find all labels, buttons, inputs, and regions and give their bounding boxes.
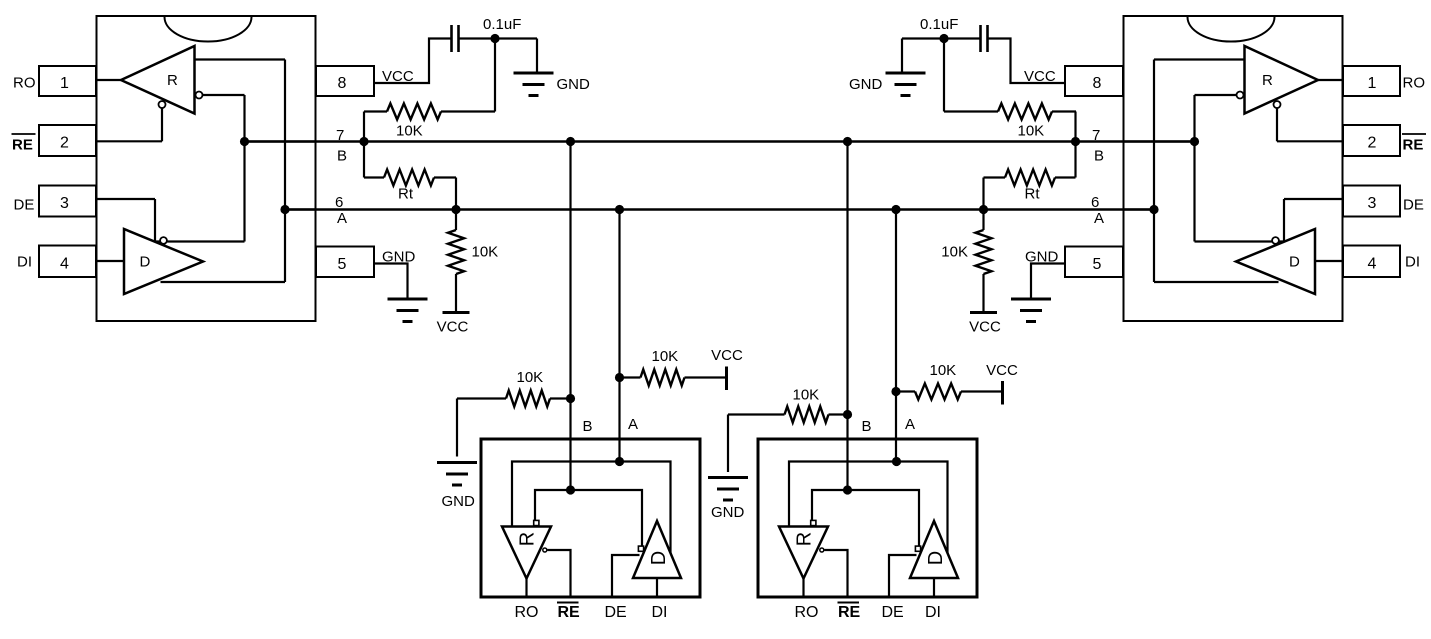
svg-text:0.1uF: 0.1uF [483, 16, 521, 33]
junction U4 A [892, 457, 901, 466]
wire U4 DI [933, 578, 935, 597]
driver D of U3 (pointing up) [633, 521, 681, 578]
U1 pin 2 box [39, 125, 96, 156]
ground symbol at C2 [886, 72, 926, 75]
svg-text:10K: 10K [1018, 123, 1045, 140]
svg-text:VCC: VCC [969, 319, 1001, 336]
U1 pin 8 box [316, 66, 374, 96]
wire C1 to GND [459, 37, 538, 39]
svg-text:D: D [925, 551, 947, 565]
svg-text:RE: RE [1403, 137, 1424, 154]
wire pin8 VCC to capacitor C1 [374, 39, 452, 84]
wire Rt1 to A bus [455, 178, 457, 210]
svg-text:5: 5 [338, 256, 347, 273]
wire B bus (y=141.5) [245, 140, 1195, 143]
svg-text:DI: DI [925, 604, 941, 621]
wire R3 to B bus [1074, 112, 1076, 142]
driver D of U2 [1236, 229, 1315, 294]
svg-text:GND: GND [711, 504, 745, 521]
svg-text:B: B [337, 148, 347, 165]
node VCC-C1 junction [490, 34, 499, 43]
resistor R7 10K (U4 B to GND) [728, 413, 785, 415]
wire RO pin1 to R output [96, 79, 121, 81]
svg-text:1: 1 [1368, 75, 1377, 92]
wire A bus drop to U3 [618, 210, 620, 462]
U4 internal A net [789, 462, 948, 559]
driver D of U4 (pointing up) [910, 521, 958, 578]
wire Rt2 to A bus [982, 178, 984, 210]
R enable bubble (RE) [159, 101, 166, 108]
capacitor C1 0.1uF [450, 25, 453, 52]
wire U1 internal B stub to pin 7 [245, 140, 316, 142]
junction U4 B [843, 485, 852, 494]
resistor R3 10K pull-up (B) [944, 110, 998, 112]
svg-text:R: R [517, 532, 539, 546]
R enable bubble (RE) [1274, 101, 1281, 108]
resistor R1 10K pull-up (B) [364, 110, 387, 112]
svg-text:4: 4 [1368, 255, 1377, 272]
U1 pin 3 box [39, 186, 96, 217]
wire U2 internal B stub to pin 7 [1124, 140, 1195, 142]
svg-text:GND: GND [557, 76, 591, 93]
svg-text:RE: RE [838, 604, 861, 621]
junction R5 at B drop [566, 394, 575, 403]
IC U1 body [97, 16, 316, 321]
junction U3 A [615, 457, 624, 466]
svg-text:3: 3 [60, 195, 69, 212]
svg-text:A: A [628, 416, 638, 433]
U2 pin 3 box [1343, 186, 1400, 217]
VCC terminal below R2 [443, 311, 470, 314]
wire DI pin4 to D input [1315, 260, 1343, 262]
svg-text:10K: 10K [652, 348, 679, 365]
svg-text:2: 2 [1368, 135, 1377, 152]
U3 internal B net [535, 490, 642, 546]
wire DE pin3 to D enable [1284, 198, 1343, 200]
wire C2 to GND [902, 37, 981, 39]
svg-text:DE: DE [1403, 196, 1424, 213]
wire C2 junction down to R3 [943, 39, 945, 112]
VCC terminal below R4 [970, 311, 997, 314]
svg-text:Rt: Rt [398, 186, 414, 203]
svg-text:VCC: VCC [437, 319, 469, 336]
R inverting input bubble (B) [196, 92, 203, 99]
svg-text:4: 4 [60, 255, 69, 272]
wire DI pin4 to D input [96, 260, 124, 262]
svg-text:Rt: Rt [1025, 186, 1041, 203]
svg-text:A: A [337, 210, 347, 227]
U2 pin 4 box [1343, 246, 1400, 278]
svg-text:10K: 10K [930, 362, 957, 379]
svg-text:GND: GND [442, 493, 476, 510]
U2 pin 2 box [1343, 125, 1400, 156]
wire B bus drop to U3 [569, 142, 571, 491]
driver D of U1 [124, 229, 203, 294]
IC U1 pin-1 notch [165, 17, 252, 41]
D output bubble on B path [160, 237, 167, 244]
junction R7 at B drop [843, 410, 852, 419]
resistor R8 10K (U4 A to VCC) [896, 390, 915, 392]
junction R6 at A drop [615, 373, 624, 382]
junction B / R3 / Rt2 [1071, 137, 1080, 146]
IC U2 body [1124, 16, 1343, 321]
wire D output to A bus [161, 281, 286, 283]
junction B drop at bus [566, 137, 575, 146]
junction U1 B [240, 137, 249, 146]
wire U3 RO [525, 579, 527, 598]
ground symbol at R7 [708, 476, 748, 479]
svg-text:D: D [140, 254, 151, 271]
wire R input B to B bus [203, 94, 245, 96]
wire R input A (top) to A bus [195, 58, 286, 60]
U2 pin 8 box [1065, 66, 1123, 96]
svg-text:5: 5 [1093, 256, 1102, 273]
wire A bus (y=209.5) [285, 208, 1156, 211]
U4 internal B net [812, 490, 919, 546]
wire RE pin2 to R enable [1276, 108, 1278, 141]
wire DE pin3 to D enable [96, 198, 155, 200]
junction R8 at A drop [891, 387, 900, 396]
U3 R input bubble (B) [534, 520, 539, 525]
U2 pin 1 box [1343, 66, 1400, 96]
svg-text:DE: DE [605, 604, 627, 621]
U2 pin 5 box [1065, 247, 1123, 278]
svg-text:RO: RO [1403, 75, 1426, 92]
svg-text:10K: 10K [396, 123, 423, 140]
receiver R of U3 (pointing down) [502, 527, 551, 579]
U1 pin 4 box [39, 246, 96, 278]
svg-text:A: A [905, 416, 915, 433]
wire pin5 to ground [374, 264, 408, 300]
svg-text:10K: 10K [941, 244, 968, 261]
wire R input A (top) to A bus [1154, 58, 1245, 60]
wire U4 DE [889, 555, 917, 597]
svg-text:1: 1 [60, 75, 69, 92]
ground symbol at R5 [437, 461, 477, 464]
junction U2 B [1190, 137, 1199, 146]
junction A / Rt2 / R4 [979, 205, 988, 214]
wire U4 RO [802, 579, 804, 598]
VCC terminal at R6 [725, 367, 728, 391]
svg-text:DI: DI [1405, 254, 1420, 271]
wire R7 to ground [727, 415, 729, 473]
wire R5 to ground [456, 399, 458, 457]
svg-text:RE: RE [12, 137, 33, 154]
wire pin8 VCC to capacitor C2 [988, 39, 1066, 84]
wire C1 junction down to R1 [494, 39, 496, 112]
svg-text:2: 2 [60, 135, 69, 152]
svg-text:R: R [167, 72, 178, 89]
svg-text:GND: GND [849, 76, 883, 93]
svg-text:8: 8 [338, 75, 347, 92]
wire D inverted output to B bus (via bubble line) [1195, 240, 1285, 242]
svg-text:R: R [794, 532, 816, 546]
receiver R of U4 (pointing down) [779, 527, 828, 579]
svg-text:A: A [1094, 210, 1104, 227]
U3 R enable bubble [543, 548, 547, 552]
svg-text:10K: 10K [472, 244, 499, 261]
node VCC-C2 junction [939, 34, 948, 43]
wire RE pin2 to R enable [161, 108, 163, 141]
wire U3 RE [547, 550, 570, 597]
U1 pin 1 box [39, 66, 96, 96]
IC U2 pin-1 notch [1188, 17, 1275, 41]
junction U2 A [1149, 205, 1158, 214]
VCC terminal at R8 [1001, 381, 1004, 405]
D output bubble on B path [1272, 237, 1279, 244]
U4 D output bubble (B) [915, 546, 920, 551]
svg-text:RE: RE [558, 604, 581, 621]
svg-text:RO: RO [13, 75, 36, 92]
wire U3 DE [612, 555, 640, 597]
resistor Rt1 termination [363, 142, 365, 178]
svg-text:DE: DE [882, 604, 904, 621]
junction B / R1 / Rt1 [359, 137, 368, 146]
resistor R5 10K (U3 B to GND) [457, 397, 506, 399]
wire A bus drop to U4 [895, 210, 897, 462]
capacitor C2 0.1uF [986, 25, 989, 52]
wire B bus drop to U4 [846, 142, 848, 491]
wire U1 internal A stub to pin 6 [285, 208, 316, 210]
svg-text:B: B [583, 418, 593, 435]
wire R1 to B bus [363, 112, 365, 142]
svg-text:VCC: VCC [711, 347, 743, 364]
U3 internal A net [512, 462, 671, 559]
junction A drop at bus [615, 205, 624, 214]
svg-text:D: D [648, 551, 670, 565]
receiver R of U2 [1245, 46, 1319, 114]
resistor R6 10K (U3 A to VCC) [620, 376, 641, 378]
svg-text:0.1uF: 0.1uF [920, 16, 958, 33]
wire D output to A bus [1154, 281, 1279, 283]
U4 R enable bubble [820, 548, 824, 552]
U3 D output bubble (B) [638, 546, 643, 551]
junction B drop at bus (right) [843, 137, 852, 146]
wire R input B to B bus [1195, 94, 1237, 96]
wire U3 DI [656, 578, 658, 597]
svg-text:RO: RO [515, 604, 539, 621]
resistor R2 10K pull-down (A) to VCC [455, 210, 457, 231]
svg-text:DI: DI [17, 254, 32, 271]
svg-text:B: B [1094, 148, 1104, 165]
ground symbol at C1 [514, 72, 554, 75]
ground symbol at U1 pin5 [388, 298, 428, 301]
wire D inverted output to B bus (via bubble line) [155, 240, 245, 242]
junction A drop at bus (right) [891, 205, 900, 214]
stub transceiver U3 body [481, 439, 700, 597]
svg-text:D: D [1289, 254, 1300, 271]
wire RO pin1 to R output [1318, 79, 1343, 81]
wire U4 RE [824, 550, 847, 597]
ground symbol at U2 pin5 [1011, 298, 1051, 301]
svg-text:3: 3 [1368, 195, 1377, 212]
receiver R of U1 [121, 46, 195, 114]
svg-text:DE: DE [14, 196, 35, 213]
junction U3 B [566, 485, 575, 494]
wire U2 internal A stub to pin 6 [1124, 208, 1155, 210]
U1 pin 5 box [316, 247, 374, 278]
svg-text:8: 8 [1093, 75, 1102, 92]
wire pin5 to ground [1031, 264, 1065, 300]
svg-text:RO: RO [795, 604, 819, 621]
svg-text:VCC: VCC [986, 362, 1018, 379]
svg-text:10K: 10K [793, 387, 820, 404]
resistor Rt2 termination [1074, 142, 1076, 178]
junction U1 A [280, 205, 289, 214]
junction A / Rt1 / R2 [451, 205, 460, 214]
svg-text:10K: 10K [517, 369, 544, 386]
svg-text:R: R [1262, 72, 1273, 89]
U4 R input bubble (B) [811, 520, 816, 525]
svg-text:B: B [862, 418, 872, 435]
svg-text:DI: DI [652, 604, 668, 621]
stub transceiver U4 body [758, 439, 977, 597]
R inverting input bubble (B) [1237, 92, 1244, 99]
resistor R4 10K pull-down (A) to VCC [982, 210, 984, 231]
